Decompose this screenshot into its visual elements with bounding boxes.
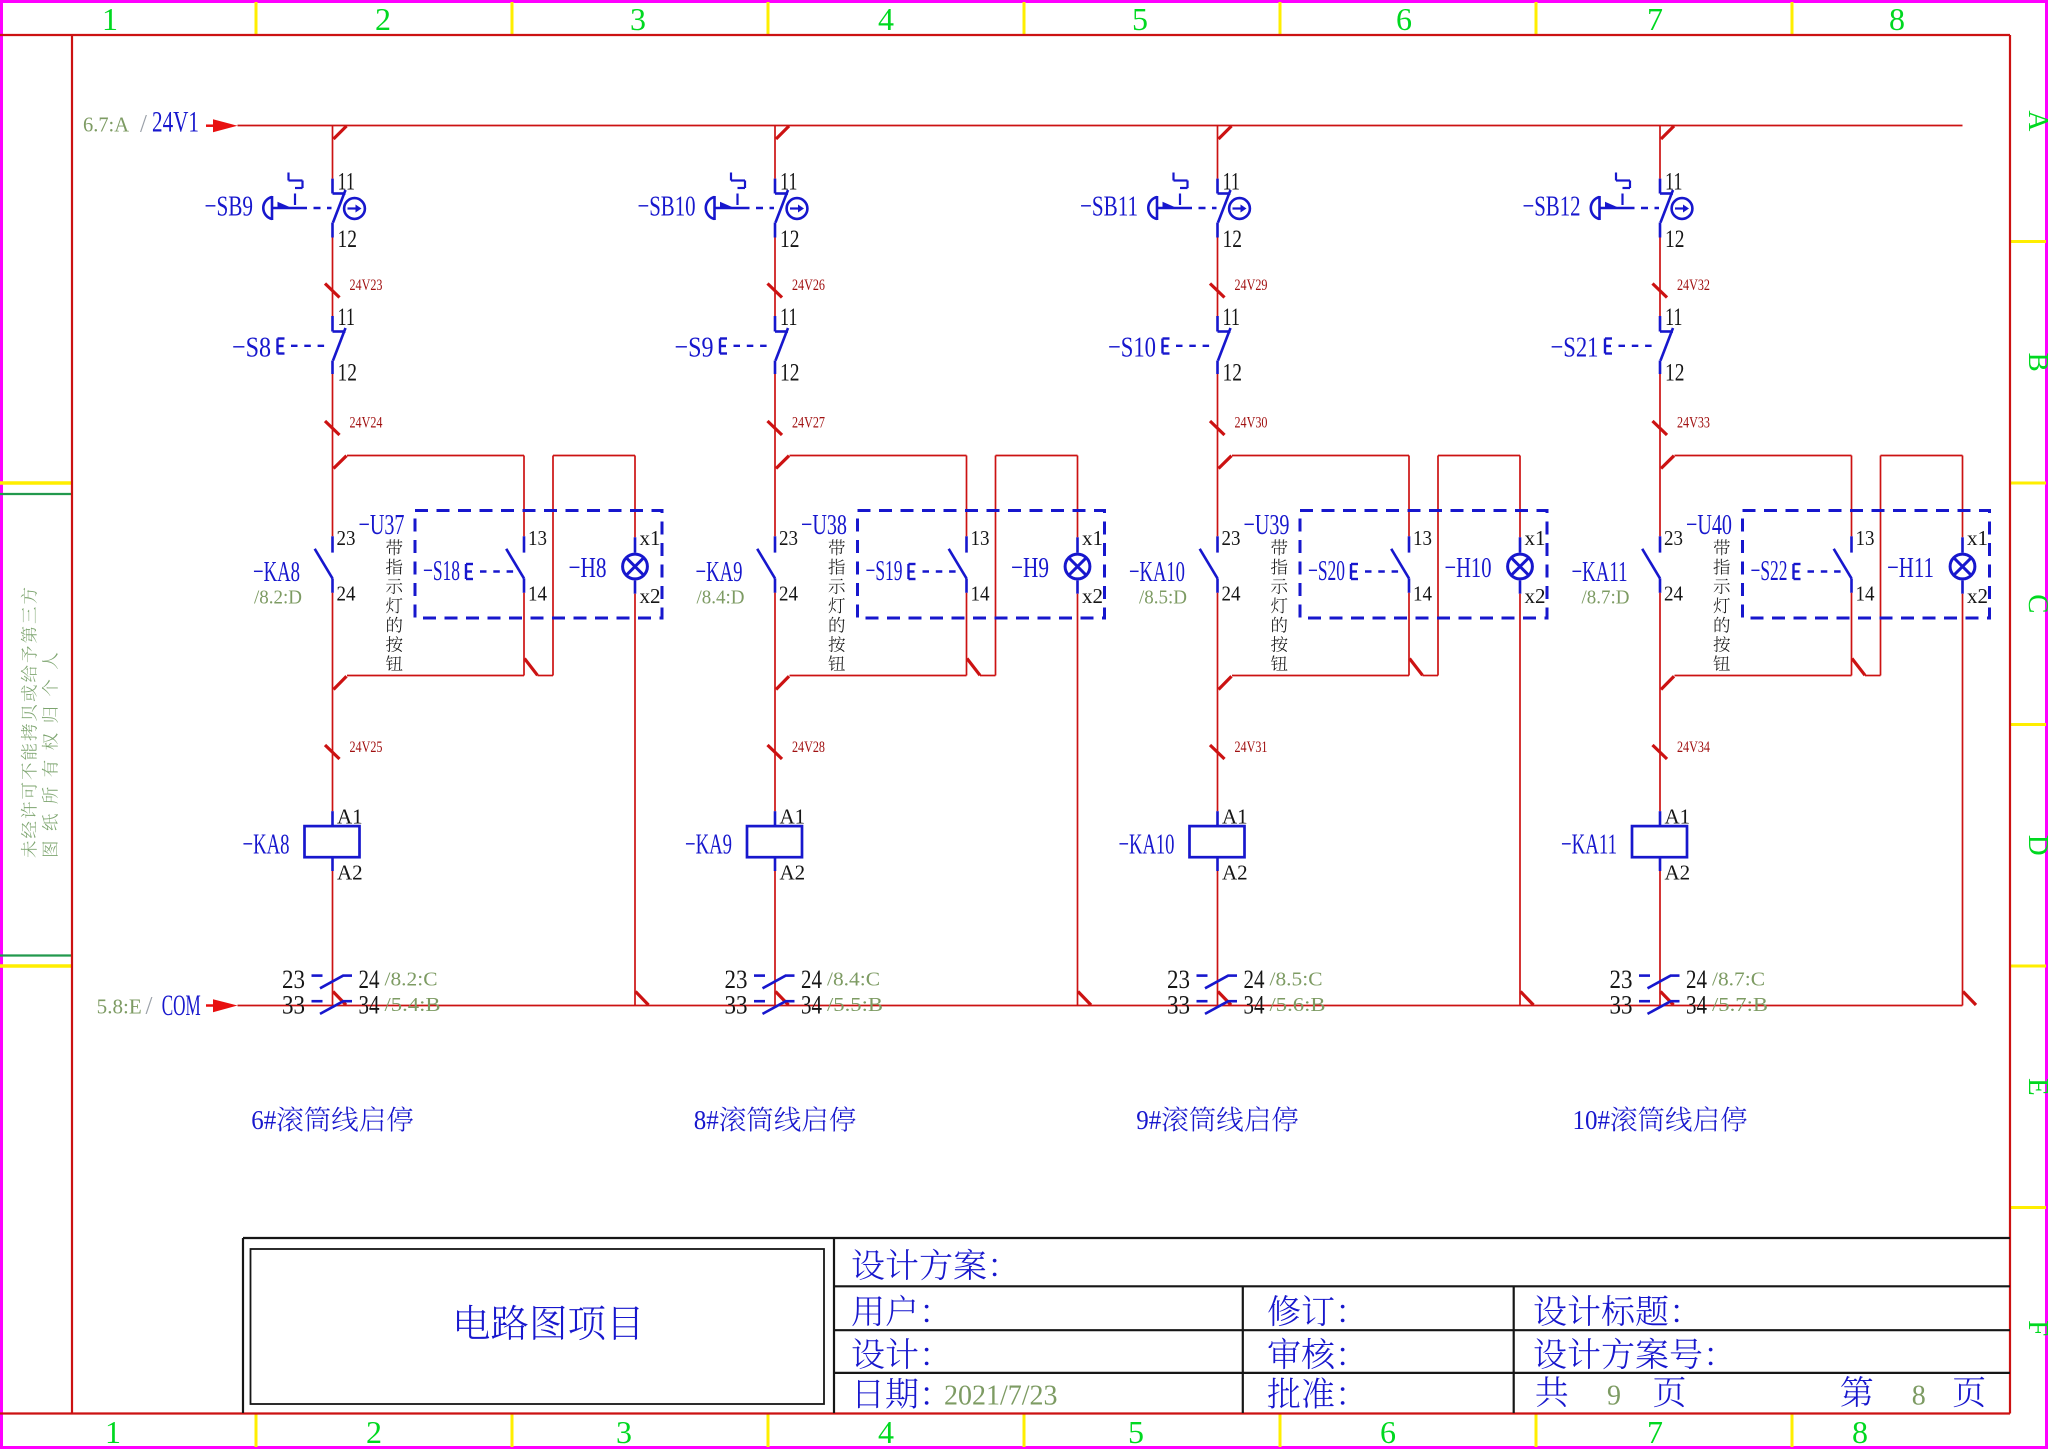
svg-text:−SB10: −SB10: [638, 191, 696, 223]
net COM bus: [238, 1005, 1963, 1007]
svg-text:/5.4:B: /5.4:B: [385, 994, 441, 1016]
svg-text:−KA9: −KA9: [685, 829, 732, 861]
zone tick marks top/bottom (yellow): [255, 2, 258, 35]
wire: main vertical drop from 24V1: [774, 126, 776, 179]
wire number tag 24V32: [1653, 284, 1668, 298]
contact -S19 in device box (NO): [965, 536, 968, 552]
svg-text:6.7:A: 6.7:A: [83, 113, 130, 137]
svg-text:A1: A1: [1222, 805, 1248, 829]
svg-text:/: /: [146, 993, 153, 1020]
relay coil -KA11: [1659, 811, 1662, 826]
svg-text:A2: A2: [1222, 861, 1248, 885]
svg-text:8: 8: [1852, 1414, 1868, 1449]
svg-text:6#: 6#: [251, 1105, 276, 1135]
junction tick at COM bus: [333, 992, 346, 1006]
relay coil -KA9: [774, 811, 777, 826]
svg-text:−H10: −H10: [1445, 552, 1492, 584]
svg-text:11: 11: [780, 169, 798, 196]
svg-text:1: 1: [102, 1, 118, 37]
svg-text:6: 6: [1380, 1414, 1396, 1449]
svg-text:14: 14: [1413, 582, 1432, 606]
wire number tag 24V30: [1210, 421, 1225, 435]
svg-text:12: 12: [338, 226, 358, 253]
svg-text:−KA11: −KA11: [1561, 829, 1617, 861]
lamp return wire to COM bus: [1519, 594, 1521, 1006]
cross-ref contact 33/34 of -KA11: [1639, 1000, 1650, 1003]
signal lamp -H9: [1076, 537, 1079, 552]
svg-text:24: 24: [1664, 582, 1683, 606]
wire: main vertical drop from 24V1: [332, 126, 334, 179]
cross-ref contact 33/34 of -KA9: [754, 1000, 765, 1003]
svg-text:23: 23: [779, 526, 798, 550]
junction tick: [1219, 456, 1232, 469]
pushbutton -SB12 (NC, mushroom head, illuminated): [1659, 179, 1662, 194]
svg-text:−H8: −H8: [569, 552, 607, 584]
wire: S branch top: [1851, 456, 1853, 537]
svg-text:24V31: 24V31: [1235, 739, 1268, 756]
svg-text:34: 34: [1244, 991, 1265, 1020]
svg-text:−SB11: −SB11: [1080, 191, 1138, 223]
svg-text:−KA10: −KA10: [1119, 829, 1175, 861]
pushbutton -SB11 (NC, mushroom head, illuminated): [1216, 179, 1219, 194]
field 用户：: [852, 1295, 928, 1326]
svg-text:34: 34: [801, 991, 822, 1020]
svg-text:14: 14: [1856, 582, 1875, 606]
svg-text:34: 34: [359, 991, 380, 1020]
svg-text:5: 5: [1128, 1414, 1144, 1449]
wire: coil to COM bus: [1217, 871, 1219, 1006]
wire down to parallel section: [1217, 374, 1219, 536]
svg-text:x2: x2: [1525, 584, 1546, 608]
wire number tag 24V31: [1210, 745, 1225, 759]
wire down to parallel section: [1659, 374, 1661, 536]
svg-text:/8.7:D: /8.7:D: [1582, 587, 1630, 609]
device box -U39 (button with lamp): [1300, 511, 1547, 619]
selector switch -S9 (NC): [774, 316, 777, 332]
selector switch -S21 (NC): [1659, 316, 1662, 332]
contact -S18 in device box (NO): [523, 536, 526, 552]
source arrow COM: [213, 999, 238, 1012]
svg-text:−S8: −S8: [232, 332, 271, 364]
aux contact -KA8 (NO): [331, 536, 334, 552]
svg-text:24V33: 24V33: [1677, 415, 1710, 432]
wire: S branch top: [1408, 456, 1410, 537]
svg-text:A: A: [2022, 110, 2048, 131]
device box -U37 (button with lamp): [415, 511, 662, 619]
lamp return wire to COM bus: [1962, 594, 1964, 1006]
svg-text:23: 23: [1664, 526, 1683, 550]
svg-text:/: /: [140, 111, 147, 138]
wire number tag 24V25: [325, 745, 340, 759]
svg-text:24: 24: [779, 582, 798, 606]
wire: coil to COM bus: [332, 871, 334, 1006]
svg-text:A1: A1: [780, 805, 806, 829]
svg-text:24: 24: [337, 582, 356, 606]
cross-ref contact 23/24 of -KA9: [754, 974, 765, 977]
svg-text:/8.4:C: /8.4:C: [827, 969, 880, 991]
svg-text:x1: x1: [1525, 526, 1546, 550]
svg-text:x2: x2: [1967, 584, 1988, 608]
svg-text:−U37: −U37: [359, 509, 405, 541]
cross-ref contact 23/24 of -KA11: [1639, 974, 1650, 977]
wire: top rail of parallel section: [790, 455, 967, 457]
svg-text:−KA8: −KA8: [243, 829, 290, 861]
wire: S branch bottom + rail: [523, 593, 525, 676]
svg-text:x2: x2: [1082, 584, 1103, 608]
contact -S20 in device box (NO): [1408, 536, 1411, 552]
selector switch -S8 (NC): [331, 316, 334, 332]
svg-text:24V27: 24V27: [792, 415, 825, 432]
svg-text:8: 8: [1912, 1381, 1926, 1412]
copyright vertical text left margin: [42, 653, 58, 856]
svg-text:24V24: 24V24: [350, 415, 383, 432]
wire: top rail of parallel section: [1675, 455, 1852, 457]
wire: main vertical drop from 24V1: [1217, 126, 1219, 179]
junction tick at COM bus: [776, 992, 789, 1006]
svg-text:24V30: 24V30: [1235, 415, 1268, 432]
junction tick lamp/COM: [1078, 992, 1091, 1006]
svg-text:2: 2: [375, 1, 391, 37]
device box -U38 (button with lamp): [858, 511, 1105, 619]
wire: S branch top: [523, 456, 525, 537]
svg-text:7: 7: [1647, 1, 1663, 37]
cross-ref contact 23/24 of -KA8: [312, 974, 323, 977]
svg-text:11: 11: [1223, 304, 1241, 331]
wire: main drop to coil: [1659, 593, 1661, 811]
signal lamp -H10: [1519, 537, 1522, 552]
field 设计方案号：: [1534, 1338, 1712, 1369]
wire: lamp loop top: [553, 455, 635, 457]
title block: [243, 1237, 2010, 1239]
svg-text:A2: A2: [337, 861, 363, 885]
wire 11->tag: [332, 238, 334, 317]
junction tick: [1661, 456, 1674, 469]
junction tick lamp/COM: [1521, 992, 1534, 1006]
wire 11->tag: [1659, 238, 1661, 317]
svg-text:7: 7: [1647, 1414, 1663, 1449]
svg-text:D: D: [2022, 835, 2048, 856]
field 日期：: [858, 1378, 929, 1409]
aux contact -KA9 (NO): [774, 536, 777, 552]
svg-text:−KA11: −KA11: [1572, 556, 1628, 588]
svg-text:−U38: −U38: [801, 509, 847, 541]
svg-text:x1: x1: [1082, 526, 1103, 550]
svg-text:24V25: 24V25: [350, 739, 383, 756]
svg-text:6: 6: [1396, 1, 1412, 37]
field 修订：: [1268, 1295, 1344, 1326]
aux contact -KA11 (NO): [1659, 536, 1662, 552]
svg-text:C: C: [2022, 594, 2048, 613]
svg-text:13: 13: [1856, 526, 1875, 550]
svg-text:13: 13: [528, 526, 547, 550]
svg-text:−S19: −S19: [866, 555, 903, 587]
svg-text:14: 14: [971, 582, 990, 606]
wire number tag 24V28: [768, 745, 783, 759]
junction tick at 24V1 bus: [1219, 126, 1232, 139]
wire: main drop to coil: [774, 593, 776, 811]
svg-text:/5.6:B: /5.6:B: [1270, 994, 1326, 1016]
fold marks left (yellow+green): [0, 481, 72, 485]
junction ticks bottom rail: [1219, 676, 1232, 689]
svg-text:11: 11: [780, 304, 798, 331]
svg-text:−S20: −S20: [1308, 555, 1345, 587]
svg-text:13: 13: [1413, 526, 1432, 550]
wire number tag 24V24: [325, 421, 340, 435]
svg-text:/8.2:D: /8.2:D: [254, 587, 302, 609]
junction tick at 24V1 bus: [1661, 126, 1674, 139]
svg-text:12: 12: [780, 360, 800, 387]
signal lamp -H8: [634, 537, 637, 552]
wire: lamp loop top: [1881, 455, 1963, 457]
wire number tag 24V29: [1210, 284, 1225, 298]
page fields: [1536, 1376, 1567, 1407]
wire: top rail of parallel section: [347, 455, 524, 457]
svg-text:14: 14: [528, 582, 547, 606]
svg-text:11: 11: [1665, 169, 1683, 196]
svg-text:11: 11: [1665, 304, 1683, 331]
junction ticks bottom rail: [1661, 676, 1674, 689]
svg-text:−S18: −S18: [423, 555, 460, 587]
wire: S branch bottom + rail: [1408, 593, 1410, 676]
svg-text:12: 12: [1223, 360, 1243, 387]
svg-text:34: 34: [1686, 991, 1707, 1020]
wire: S branch top: [966, 456, 968, 537]
svg-text:A1: A1: [337, 805, 363, 829]
junction tick at COM bus: [1218, 992, 1231, 1006]
wire 11->tag: [774, 238, 776, 317]
svg-text:24: 24: [1222, 582, 1241, 606]
wire: S branch bottom + rail: [1851, 593, 1853, 676]
device box -U40 (button with lamp): [1743, 511, 1990, 619]
field 批准：: [1268, 1377, 1345, 1408]
wire: lamp loop top: [996, 455, 1078, 457]
wire: coil to COM bus: [774, 871, 776, 1006]
svg-text:23: 23: [1222, 526, 1241, 550]
svg-text:x2: x2: [640, 584, 661, 608]
svg-text:−U39: −U39: [1244, 509, 1290, 541]
svg-text:2021/7/23: 2021/7/23: [944, 1381, 1058, 1412]
lamp return wire to COM bus: [634, 594, 636, 1006]
svg-text:5: 5: [1132, 1, 1148, 37]
svg-text:A1: A1: [1665, 805, 1691, 829]
field 审核：: [1268, 1338, 1344, 1369]
svg-text:11: 11: [338, 169, 356, 196]
svg-text:12: 12: [1665, 226, 1685, 253]
junction ticks bottom rail: [776, 676, 789, 689]
svg-text:24V1: 24V1: [152, 107, 199, 139]
svg-text:12: 12: [338, 360, 358, 387]
svg-text:−U40: −U40: [1686, 509, 1732, 541]
svg-text:23: 23: [337, 526, 356, 550]
pushbutton -SB10 (NC, mushroom head, illuminated): [774, 179, 777, 194]
svg-text:/8.5:C: /8.5:C: [1270, 969, 1323, 991]
wire number tag 24V34: [1653, 745, 1668, 759]
svg-text:−SB9: −SB9: [205, 191, 254, 223]
svg-text:/8.4:D: /8.4:D: [697, 587, 745, 609]
junction ticks bottom rail: [334, 676, 347, 689]
svg-text:A2: A2: [1665, 861, 1691, 885]
svg-text:8: 8: [1889, 1, 1905, 37]
svg-text:24V29: 24V29: [1235, 277, 1268, 294]
junction tick: [334, 456, 347, 469]
svg-text:5.8:E: 5.8:E: [97, 995, 142, 1019]
source arrow 24V1: [213, 119, 238, 132]
cross-ref contact 23/24 of -KA10: [1197, 974, 1208, 977]
svg-text:−SB12: −SB12: [1523, 191, 1581, 223]
relay coil -KA10: [1216, 811, 1219, 826]
wire down to parallel section: [774, 374, 776, 536]
red drawing frame: [0, 34, 2010, 36]
svg-text:24V32: 24V32: [1677, 277, 1710, 294]
svg-text:/5.7:B: /5.7:B: [1712, 994, 1768, 1016]
svg-text:9#: 9#: [1136, 1105, 1161, 1135]
cross-ref contact 33/34 of -KA8: [312, 1000, 323, 1003]
svg-text:F: F: [2022, 1320, 2048, 1336]
svg-text:24V34: 24V34: [1677, 739, 1710, 756]
svg-text:24V26: 24V26: [792, 277, 825, 294]
svg-text:−S21: −S21: [1551, 332, 1599, 364]
junction tick at COM bus: [1661, 992, 1674, 1006]
net 24V1 bus: [238, 125, 1963, 127]
svg-text:24V23: 24V23: [350, 277, 383, 294]
svg-text:−S9: −S9: [675, 332, 714, 364]
svg-text:x1: x1: [640, 526, 661, 550]
svg-text:x1: x1: [1967, 526, 1988, 550]
svg-text:1: 1: [105, 1414, 121, 1449]
svg-text:12: 12: [1223, 226, 1243, 253]
wire number tag 24V33: [1653, 421, 1668, 435]
svg-text:9: 9: [1607, 1381, 1621, 1412]
svg-text:−KA10: −KA10: [1129, 556, 1185, 588]
svg-text:/8.5:D: /8.5:D: [1139, 587, 1187, 609]
svg-text:11: 11: [1223, 169, 1241, 196]
wire: lamp loop top: [1438, 455, 1520, 457]
svg-text:13: 13: [971, 526, 990, 550]
svg-text:−H11: −H11: [1887, 552, 1934, 584]
wire: S branch bottom + rail: [966, 593, 968, 676]
svg-text:33: 33: [282, 991, 305, 1020]
field 设计标题：: [1534, 1295, 1678, 1326]
wire number tag 24V27: [768, 421, 783, 435]
field 设计：: [852, 1338, 928, 1369]
lamp return wire to COM bus: [1077, 594, 1079, 1006]
wire: coil to COM bus: [1659, 871, 1661, 1006]
field 设计方案：: [852, 1249, 996, 1280]
svg-text:COM: COM: [162, 990, 201, 1022]
svg-text:3: 3: [616, 1414, 632, 1449]
junction tick at 24V1 bus: [776, 126, 789, 139]
svg-text:33: 33: [1167, 991, 1190, 1020]
wire number tag 24V26: [768, 284, 783, 298]
junction tick: [776, 456, 789, 469]
svg-text:−S10: −S10: [1108, 332, 1156, 364]
svg-text:/8.7:C: /8.7:C: [1712, 969, 1765, 991]
wire: top rail of parallel section: [1232, 455, 1409, 457]
zone tick marks right (yellow): [2010, 240, 2046, 243]
svg-text:E: E: [2022, 1078, 2048, 1096]
svg-text:4: 4: [878, 1414, 894, 1449]
svg-text:B: B: [2022, 353, 2048, 372]
svg-text:4: 4: [878, 1, 894, 37]
wire: main drop to coil: [1217, 593, 1219, 811]
svg-text:3: 3: [630, 1, 646, 37]
project title: [457, 1305, 639, 1340]
cross-ref contact 33/34 of -KA10: [1197, 1000, 1208, 1003]
wire down to parallel section: [332, 374, 334, 536]
selector switch -S10 (NC): [1216, 316, 1219, 332]
svg-text:/5.5:B: /5.5:B: [827, 994, 883, 1016]
svg-text:12: 12: [1665, 360, 1685, 387]
wire number tag 24V23: [325, 284, 340, 298]
junction tick lamp/COM: [636, 992, 649, 1006]
svg-text:10#: 10#: [1573, 1105, 1611, 1135]
svg-text:−KA9: −KA9: [696, 556, 743, 588]
relay coil -KA8: [331, 811, 334, 826]
svg-text:−H9: −H9: [1011, 552, 1049, 584]
svg-text:−S22: −S22: [1751, 555, 1788, 587]
signal lamp -H11: [1961, 537, 1964, 552]
svg-text:12: 12: [780, 226, 800, 253]
svg-text:/8.2:C: /8.2:C: [385, 969, 438, 991]
svg-text:−KA8: −KA8: [253, 556, 300, 588]
wire 11->tag: [1217, 238, 1219, 317]
svg-text:33: 33: [725, 991, 748, 1020]
wire: main drop to coil: [332, 593, 334, 811]
svg-text:11: 11: [338, 304, 356, 331]
svg-text:2: 2: [366, 1414, 382, 1449]
svg-text:24V28: 24V28: [792, 739, 825, 756]
svg-text:33: 33: [1610, 991, 1633, 1020]
aux contact -KA10 (NO): [1216, 536, 1219, 552]
pushbutton -SB9 (NC, mushroom head, illuminated): [331, 179, 334, 194]
svg-text:8#: 8#: [694, 1105, 719, 1135]
junction tick at 24V1 bus: [334, 126, 347, 139]
contact -S22 in device box (NO): [1850, 536, 1853, 552]
svg-text:A2: A2: [780, 861, 806, 885]
junction tick lamp/COM: [1963, 992, 1976, 1006]
wire: main vertical drop from 24V1: [1659, 126, 1661, 179]
